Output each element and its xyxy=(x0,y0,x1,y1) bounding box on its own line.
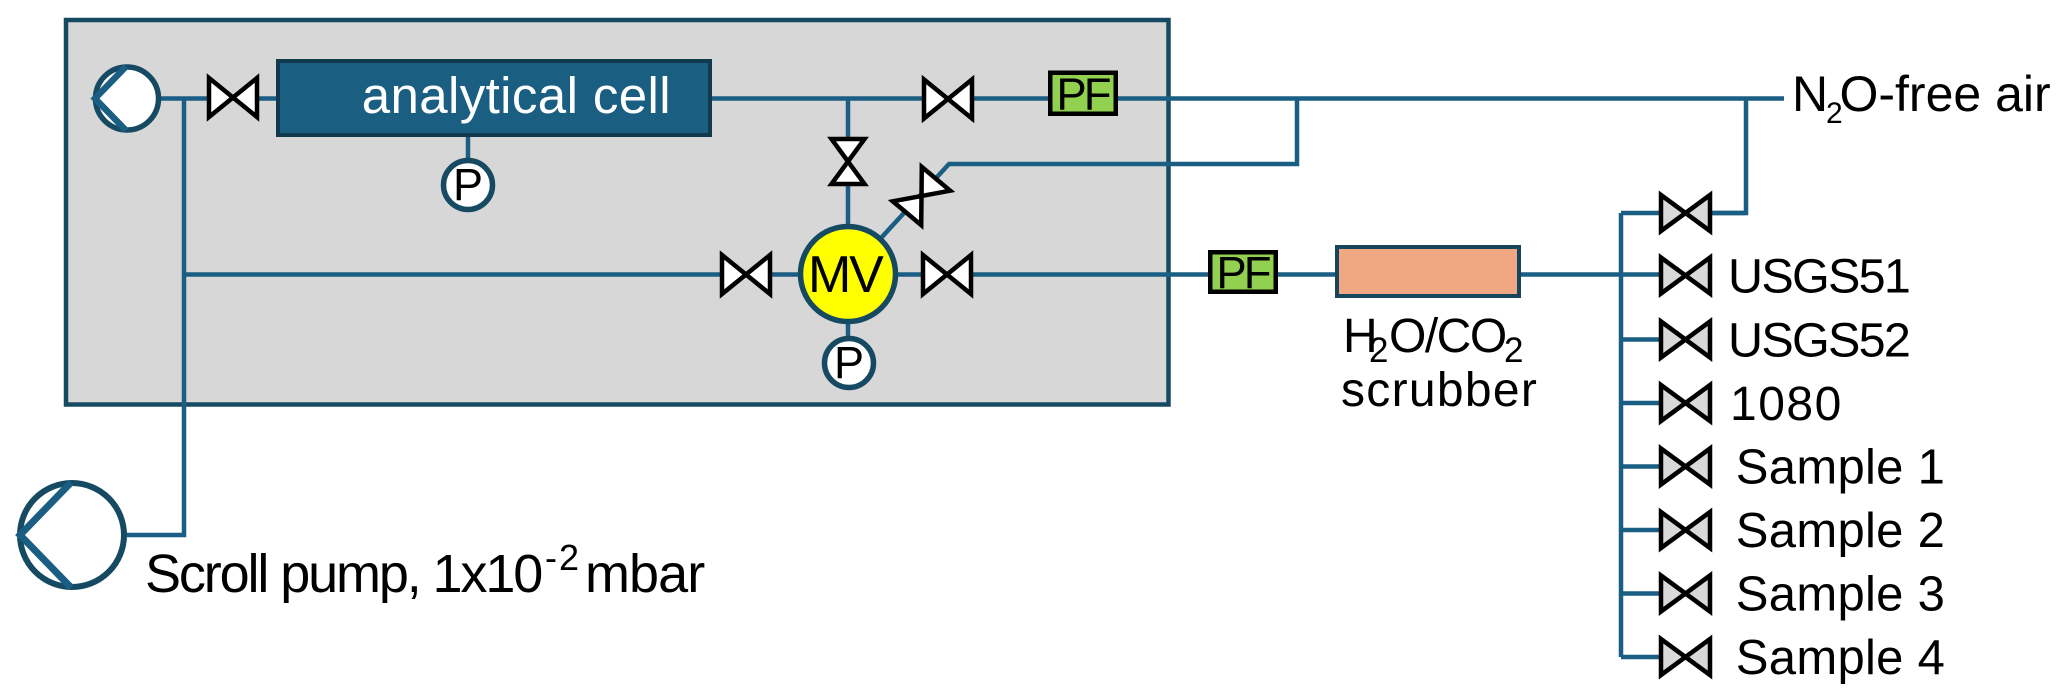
svg-text:Sample 3: Sample 3 xyxy=(1736,568,1945,622)
svg-text:O-free air: O-free air xyxy=(1840,66,2051,122)
svg-text:Sample 2: Sample 2 xyxy=(1736,504,1945,558)
svg-text:O/CO: O/CO xyxy=(1389,310,1506,363)
svg-text:Sample 1: Sample 1 xyxy=(1736,441,1945,495)
svg-text:N: N xyxy=(1792,66,1828,122)
svg-text:1080: 1080 xyxy=(1730,378,1843,431)
svg-text:MV: MV xyxy=(808,246,884,304)
svg-text:Sample 4: Sample 4 xyxy=(1736,631,1945,685)
svg-text:mbar: mbar xyxy=(585,544,705,604)
svg-text:USGS52: USGS52 xyxy=(1728,314,1909,368)
svg-text:Scroll pump, 1x10: Scroll pump, 1x10 xyxy=(145,544,541,604)
svg-text:USGS51: USGS51 xyxy=(1728,250,1909,304)
svg-text:analytical cell: analytical cell xyxy=(362,67,671,124)
svg-text:PF: PF xyxy=(1216,247,1269,298)
svg-text:P: P xyxy=(453,159,483,210)
svg-text:PF: PF xyxy=(1056,69,1109,120)
svg-text:P: P xyxy=(834,337,864,388)
svg-text:-2: -2 xyxy=(545,537,581,578)
svg-text:scrubber: scrubber xyxy=(1341,364,1538,417)
